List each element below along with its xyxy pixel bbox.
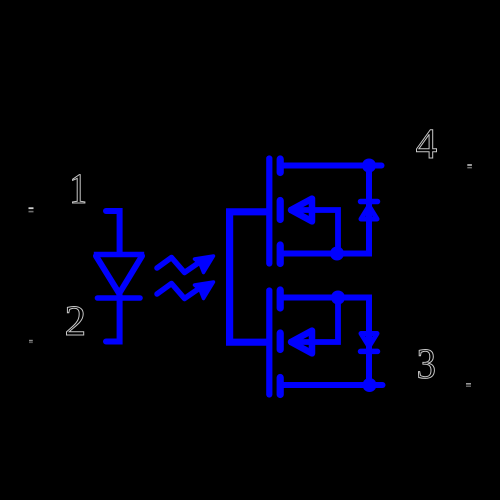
gate coupling wire: [230, 212, 270, 342]
Q1 body arrow: [289, 199, 338, 254]
Q1 drain wire: [281, 163, 382, 169]
transistor Q2 channel bars: [277, 290, 284, 395]
junction dot source2: [331, 291, 345, 305]
junction dot source1: [330, 247, 344, 261]
pin 1 wire: [106, 211, 120, 252]
pin 1 end mark: [29, 207, 34, 212]
light arrow 1: [157, 256, 214, 273]
Q1 source wire: [281, 251, 372, 257]
junction dot drain2: [363, 378, 377, 392]
pin 4 end mark: [467, 164, 472, 168]
body diode DB1: [361, 166, 378, 254]
pin 2 end mark: [29, 340, 33, 343]
light arrow 2: [157, 282, 214, 299]
LED D1: [94, 255, 144, 299]
pin 2 label: [67, 307, 84, 336]
junction dot drain1: [362, 159, 376, 173]
transistor Q2 gate: [266, 291, 272, 395]
transistor Q1 gate: [266, 159, 272, 264]
pin 3 end mark: [466, 383, 471, 387]
Q2 source wire: [281, 295, 372, 301]
pin 4 label: [417, 130, 437, 158]
transistor Q1 channel bars: [277, 159, 284, 264]
pin 3 label: [419, 350, 435, 379]
Q2 drain wire: [281, 382, 383, 388]
pin 1 label: [73, 175, 85, 203]
body diode DB2: [361, 298, 378, 386]
pin 2 wire: [106, 295, 120, 342]
Q2 body arrow: [289, 298, 338, 354]
